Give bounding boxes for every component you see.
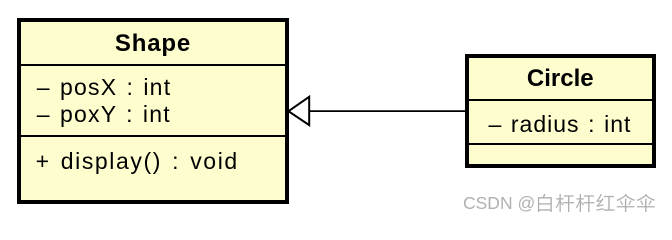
Shape attribute poxY xyxy=(37,103,171,126)
Shape title/attribute divider xyxy=(21,64,285,66)
Shape method display xyxy=(36,150,239,173)
Circle title/attribute divider xyxy=(469,99,652,101)
Shape attribute posX xyxy=(37,76,172,99)
Circle title text xyxy=(465,67,656,91)
generalization arrow Circle -> Shape xyxy=(284,90,470,132)
watermark CSDN xyxy=(463,195,535,213)
class Circle xyxy=(465,54,656,168)
hollow triangle arrowhead xyxy=(289,97,310,125)
Circle attribute radius xyxy=(489,113,632,136)
Shape title text xyxy=(17,32,289,56)
class Shape xyxy=(17,18,289,204)
Circle attribute/method divider xyxy=(469,143,652,145)
wire (association line) xyxy=(309,110,465,112)
Shape attribute/method divider xyxy=(21,135,285,137)
